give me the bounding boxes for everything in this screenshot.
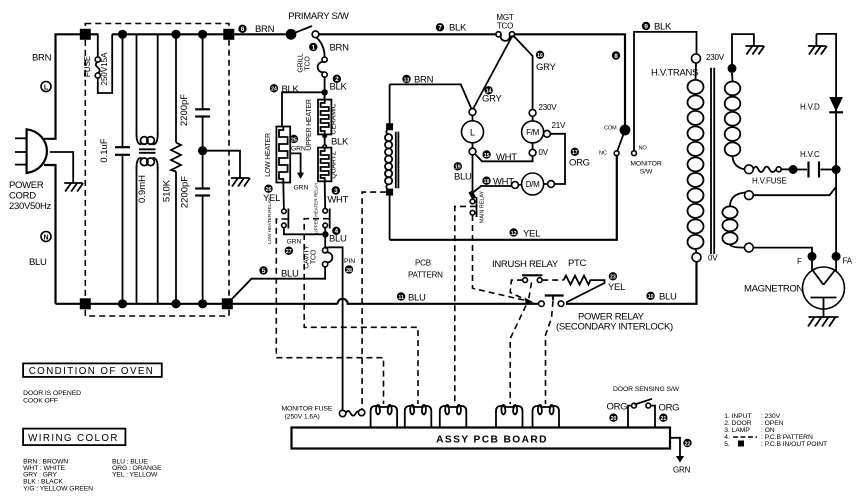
pcb dashed box (noise filter) <box>85 24 229 317</box>
node square pcb point bottom-left <box>80 298 91 309</box>
relay contact low heater relay <box>282 209 289 229</box>
svg-text:: P.C.B PATTERN: : P.C.B PATTERN <box>761 434 813 441</box>
svg-text:25: 25 <box>291 137 297 143</box>
svg-text:0V: 0V <box>539 148 549 157</box>
svg-text:2200pF: 2200pF <box>179 94 190 126</box>
heater upper quartz <box>318 148 331 182</box>
ground hvt right <box>808 34 827 55</box>
node dot hvt secondary top <box>728 64 737 73</box>
svg-text:CONDITION OF OVEN: CONDITION OF OVEN <box>29 366 155 377</box>
node dot bottom 0.1uF <box>118 299 127 308</box>
node dot bottom 2200pF <box>198 299 207 308</box>
svg-text:BLU: BLU <box>659 292 677 303</box>
label 3 WHT <box>332 186 340 194</box>
wire ceramic to quartz BLK <box>324 134 326 147</box>
node dot F <box>808 252 817 261</box>
wire low heater earth tap <box>290 153 300 173</box>
svg-text:1. INPUT: 1. INPUT <box>724 413 751 420</box>
svg-text:7: 7 <box>438 25 442 32</box>
heater upper ceramic <box>318 92 331 134</box>
transformer hvt filament winding <box>722 193 745 248</box>
svg-text:CORD: CORD <box>9 191 36 202</box>
svg-text:DOOR SENSING S/W: DOOR SENSING S/W <box>613 386 680 393</box>
pcb board box <box>292 428 671 449</box>
label 16 GRY <box>536 51 544 59</box>
svg-text:WIRING COLOR: WIRING COLOR <box>28 433 119 444</box>
svg-text:N: N <box>43 234 48 241</box>
node dot mid 2200pF junction <box>198 146 207 155</box>
wire top bus to mgt tco <box>319 33 496 35</box>
svg-text:: P.C.B IN/OUT POINT: : P.C.B IN/OUT POINT <box>761 441 827 448</box>
svg-text:26: 26 <box>266 187 272 193</box>
wire mgt tco to fm 230V (16 GRY) <box>513 35 533 109</box>
svg-text:BRN: BRN <box>330 43 350 54</box>
capacitor 0.1uF <box>115 34 130 304</box>
svg-text:COM: COM <box>604 126 617 132</box>
transformer hvt primary winding <box>688 63 704 253</box>
svg-text:PIN: PIN <box>344 258 355 265</box>
capacitor 2200pF upper <box>195 34 210 188</box>
transformer hvt core <box>711 68 714 254</box>
capacitor 2200pF lower <box>195 189 210 304</box>
thermal cutout cavity tco <box>323 248 333 267</box>
wire 13 BRN lvt to lamp <box>390 84 472 109</box>
svg-text:H.V.C: H.V.C <box>800 150 820 159</box>
dashed pcb pattern main relay to coil3 <box>455 206 476 404</box>
label 1 BRN <box>309 43 317 51</box>
label 8 disc <box>612 51 620 59</box>
diode H.V.D <box>829 97 843 112</box>
wire main relay to dm <box>473 186 512 193</box>
plug prong 1 <box>15 137 27 139</box>
svg-text:UPPER HEATER: UPPER HEATER <box>306 99 313 151</box>
svg-text:(SECONDARY INTERLOCK): (SECONDARY INTERLOCK) <box>556 322 673 333</box>
svg-text:: 230V: : 230V <box>761 413 781 420</box>
wire lvt vertical top <box>389 84 391 128</box>
svg-text:11: 11 <box>398 295 404 301</box>
wire filament top to FA line <box>753 187 836 195</box>
svg-text:GRILL: GRILL <box>298 53 305 73</box>
label 10 BLU <box>646 292 654 300</box>
label 2 BLK <box>333 75 341 83</box>
svg-text:(250V 1.6A): (250V 1.6A) <box>285 414 320 421</box>
svg-text:13: 13 <box>404 77 410 83</box>
ground at power cord <box>64 183 83 192</box>
svg-text:ASSY PCB BOARD: ASSY PCB BOARD <box>436 435 548 446</box>
dashed pcb pattern main relay contact to power relay <box>473 215 527 301</box>
svg-text:: OPEN: : OPEN <box>761 420 784 427</box>
svg-text:DOOR IS OPENED: DOOR IS OPENED <box>23 390 81 397</box>
node dot hvc left <box>789 165 798 174</box>
svg-text:22: 22 <box>685 441 691 447</box>
wire bottom bus with hop <box>338 299 539 304</box>
connector coil 2 <box>405 405 432 428</box>
svg-text:L: L <box>44 84 49 91</box>
node hvt primary top terminal <box>692 54 701 63</box>
switch monitor s/w <box>614 125 636 156</box>
label 18 WHT <box>482 177 490 185</box>
svg-text:S/W: S/W <box>640 169 653 176</box>
svg-text:BLU: BLU <box>29 257 47 268</box>
svg-text:8: 8 <box>614 53 618 60</box>
svg-text:NO: NO <box>639 146 648 152</box>
svg-text:12: 12 <box>511 231 517 237</box>
label 7 BLK <box>436 23 444 31</box>
node square pcb point bottom-right <box>222 298 233 309</box>
wire plug earth to ground <box>50 152 73 183</box>
node N <box>41 232 51 242</box>
connector coil 3 <box>440 405 467 428</box>
SECTION: hv <box>566 34 853 327</box>
dashed pcb pattern power relay area to coil4 <box>510 306 526 405</box>
wire monitor NO up <box>634 32 697 151</box>
svg-text:MONITOR: MONITOR <box>630 161 661 168</box>
svg-text:D/M: D/M <box>526 180 540 189</box>
ground hvt left <box>745 46 764 55</box>
fuse hv fuse <box>745 165 791 174</box>
label 17 ORG <box>571 148 579 156</box>
dashed pcb pattern power relay stem to coil5 <box>546 301 554 404</box>
svg-text:NC: NC <box>599 151 607 157</box>
svg-text:: ON: : ON <box>761 427 775 434</box>
inductor 0.9mH common mode choke <box>136 34 157 304</box>
wire junction to low heater <box>282 92 325 126</box>
svg-text:CERAMIC: CERAMIC <box>331 103 338 134</box>
wire plug line L up to top bus <box>44 34 85 139</box>
SECTION: heaters <box>227 11 496 411</box>
wire low heater to relay <box>282 183 285 210</box>
node ceramic bottom <box>323 134 326 137</box>
svg-text:BLU: BLU <box>454 172 472 183</box>
dashed pcb pattern low relay to coil1 <box>276 219 383 404</box>
wire quartz to relay <box>324 181 327 208</box>
svg-text:POWER: POWER <box>9 180 44 191</box>
wire pin tap from cavity tco <box>325 247 343 410</box>
svg-text:21V: 21V <box>552 121 566 130</box>
node dot hvc right <box>832 165 841 174</box>
heater low heater <box>276 127 290 183</box>
wire fm 21V to dm <box>550 134 565 184</box>
svg-text:17: 17 <box>572 150 578 156</box>
label 11 BLU <box>397 292 405 300</box>
node dot bottom 510K <box>171 299 180 308</box>
svg-text:F/M: F/M <box>526 128 540 137</box>
label 19 BLU main relay wire <box>454 162 462 170</box>
SECTION: emi filter <box>56 24 338 317</box>
svg-text:H.V.TRANS: H.V.TRANS <box>651 68 698 79</box>
dashed pcb pattern lvt to monitor fuse <box>362 192 386 409</box>
wire 12 YEL bus <box>390 156 617 240</box>
top bus wire <box>85 33 98 35</box>
svg-text:BLU: BLU <box>281 269 299 280</box>
svg-text:GRN: GRN <box>294 184 309 191</box>
svg-text:PATTERN: PATTERN <box>408 271 443 280</box>
svg-text:27: 27 <box>286 249 292 255</box>
label 13 BRN <box>402 75 410 83</box>
motor fan F/M <box>522 110 551 157</box>
svg-text:18: 18 <box>484 179 490 185</box>
dashed pcb pattern inrush bar to arrow <box>529 283 532 299</box>
svg-text:GRN: GRN <box>291 145 306 152</box>
svg-text:BLK: BLK <box>282 84 300 95</box>
node dot FA <box>832 252 841 261</box>
node filament bottom terminal <box>745 243 754 252</box>
node quartz top <box>323 145 326 148</box>
svg-text:9: 9 <box>644 23 648 30</box>
svg-text:TCO: TCO <box>305 56 312 71</box>
SECTION: left power input <box>9 34 85 304</box>
svg-text:GRY: GRY <box>536 62 556 73</box>
svg-text:FA: FA <box>843 257 853 266</box>
svg-text:YEL: YEL <box>608 282 625 293</box>
svg-text:4.: 4. <box>724 434 730 441</box>
svg-text:ORG: ORG <box>607 402 628 413</box>
svg-text:23: 23 <box>610 275 616 281</box>
wire lvt bottom to yel bus <box>389 196 391 240</box>
label 21 disc <box>659 414 667 422</box>
svg-text:230V50Hz: 230V50Hz <box>9 201 52 212</box>
switch primary s/w <box>286 26 319 40</box>
node dot top 0.1uF <box>118 30 127 39</box>
arrow pcb pattern into power relay <box>525 298 534 304</box>
svg-text:BLK: BLK <box>654 22 672 33</box>
wire lamp to main relay <box>472 155 474 191</box>
svg-text:BLK: BLK <box>330 82 348 93</box>
label 9 BLK <box>642 22 650 30</box>
label 24 BLK <box>270 84 278 92</box>
svg-text:FUSE: FUSE <box>83 56 92 77</box>
svg-text:COOK OFF: COOK OFF <box>23 398 58 405</box>
label 26 YEL <box>264 185 272 193</box>
box CONDITION OF OVEN <box>23 363 162 377</box>
power cord plug <box>27 129 47 173</box>
svg-text:PTC: PTC <box>568 258 587 269</box>
motor drive D/M <box>512 173 555 195</box>
wire top bus mgt to monitor corner <box>515 34 625 126</box>
node square pcb out point top-right <box>223 29 234 40</box>
node dot heater junction <box>321 89 327 95</box>
svg-text:510K: 510K <box>162 179 173 202</box>
connector coil 5 <box>533 405 560 428</box>
wire primary s/w to grill tco <box>317 38 325 58</box>
svg-text:PCB: PCB <box>415 259 431 268</box>
dashed pcb pattern upper relay to coil2 <box>304 219 418 404</box>
svg-text:16: 16 <box>537 53 543 59</box>
node square lvt bottom <box>386 189 393 196</box>
svg-text:GRN: GRN <box>673 466 691 475</box>
relay contact upper heater relay <box>323 209 330 229</box>
svg-text:20: 20 <box>611 416 617 422</box>
label 25 GRN tap <box>290 135 298 143</box>
svg-text:230V: 230V <box>706 53 725 62</box>
wire low relay to junction <box>284 228 326 235</box>
relay main relay contact <box>470 192 476 218</box>
node square lvt top <box>386 123 393 130</box>
wire 5 BLU cavity tco to bus <box>227 267 325 304</box>
label 15 WHT <box>482 150 490 158</box>
fuse monitor fuse <box>339 409 364 416</box>
svg-text:PRIMARY S/W: PRIMARY S/W <box>288 11 349 22</box>
capacitor H.V.C <box>793 162 836 178</box>
switch door sensing <box>628 399 655 428</box>
label 14 GRY <box>484 86 492 94</box>
node filament top terminal <box>745 191 754 200</box>
wire lamp to fm 0V <box>475 154 533 161</box>
svg-text:WHT: WHT <box>327 195 348 206</box>
label 23 YEL <box>609 272 617 280</box>
ground arrow grn <box>676 456 684 463</box>
magnetron <box>803 260 845 317</box>
label 5 BLU <box>259 266 267 274</box>
dashed pcb pattern inrush left lead <box>510 280 525 300</box>
label 20 disc <box>609 414 617 422</box>
label 6 BRN <box>238 25 246 33</box>
svg-text:MAIN RELAY: MAIN RELAY <box>480 190 486 223</box>
node dot top 2200pF <box>198 30 207 39</box>
svg-text:MAGNETRON: MAGNETRON <box>744 284 803 295</box>
svg-text:YEL: YEL <box>523 229 540 240</box>
svg-text:0.9mH: 0.9mH <box>137 175 148 203</box>
svg-text:UPPER HEATER RELAY: UPPER HEATER RELAY <box>313 182 318 233</box>
relay power relay contacts on bus <box>539 296 564 307</box>
lamp oven lamp L <box>462 109 484 155</box>
box WIRING COLOR <box>23 429 125 446</box>
wire pcb right to ground <box>670 438 680 457</box>
thermal cutout mgt tco <box>496 32 515 41</box>
connector coil 1 <box>371 405 398 428</box>
relay inrush contacts <box>522 275 542 282</box>
svg-text:Y/G : YELLOW GREEN: Y/G : YELLOW GREEN <box>23 485 93 492</box>
svg-text:2200pF: 2200pF <box>180 176 191 208</box>
svg-text:QUARTZ: QUARTZ <box>331 150 338 178</box>
svg-text:F: F <box>797 257 802 266</box>
SECTION: legend <box>23 363 827 492</box>
wire secondary top to ground <box>732 34 754 68</box>
label 27 GRN disc <box>285 247 293 255</box>
SECTION: pcb <box>276 192 691 474</box>
svg-text:ORG: ORG <box>569 158 590 169</box>
label 22 disc <box>683 439 691 447</box>
wire plug neutral down to bottom bus <box>44 165 56 304</box>
svg-text:INRUSH RELAY: INRUSH RELAY <box>492 259 559 270</box>
resistor 510K <box>171 34 181 304</box>
bottom bus wire <box>56 303 338 305</box>
svg-text:YEL : YELLOW: YEL : YELLOW <box>112 472 158 479</box>
svg-text:BRN: BRN <box>32 53 52 64</box>
wire hvt 0V to bus <box>566 262 697 304</box>
dashed pcb pattern inrush right to ptc <box>542 279 563 281</box>
svg-text:TCO: TCO <box>311 249 318 264</box>
wire grill tco to heater junction <box>324 77 326 99</box>
svg-text:6: 6 <box>241 26 245 33</box>
svg-text:10: 10 <box>648 294 654 300</box>
label 4 BLU <box>332 227 340 235</box>
svg-text:BLK: BLK <box>331 137 349 148</box>
node dot relay junction <box>322 231 328 237</box>
svg-text:21: 21 <box>661 416 667 422</box>
svg-text:28: 28 <box>346 268 352 274</box>
svg-text:24: 24 <box>271 87 277 93</box>
plug prong 3 <box>15 164 27 166</box>
svg-text:GRN: GRN <box>287 239 302 246</box>
svg-text:BRN: BRN <box>255 24 275 35</box>
svg-text:H.V.FUSE: H.V.FUSE <box>752 177 787 186</box>
label 12 YEL <box>510 228 518 236</box>
wire mgt tco to lamp (14 GRY) <box>473 36 513 110</box>
svg-text:GRY: GRY <box>482 94 502 105</box>
svg-text:0.1uF: 0.1uF <box>99 138 110 162</box>
ground filter <box>231 178 250 187</box>
svg-text:MONITOR FUSE: MONITOR FUSE <box>282 406 333 413</box>
ground magnetron <box>808 317 839 327</box>
svg-text:3. LAMP: 3. LAMP <box>724 427 750 434</box>
svg-text:2. DOOR: 2. DOOR <box>724 420 751 427</box>
thermal cutout grill tco <box>318 57 328 77</box>
ground arrow low heater <box>297 173 304 179</box>
plug prong 2 <box>15 151 27 153</box>
node square pcb in point top-left <box>80 29 91 40</box>
node hvt 0V terminal <box>692 253 701 262</box>
svg-text:BLK: BLK <box>449 23 467 34</box>
svg-text:LOW HEATER RELAY: LOW HEATER RELAY <box>267 198 272 244</box>
svg-text:230V: 230V <box>539 103 558 112</box>
svg-text:1: 1 <box>311 44 315 51</box>
svg-text:TCO: TCO <box>497 22 513 31</box>
node dot top 510K <box>171 30 180 39</box>
svg-text:L: L <box>470 127 475 137</box>
SECTION: motors <box>385 13 697 240</box>
node L <box>41 82 51 92</box>
svg-text:ORG: ORG <box>659 403 680 414</box>
wire junction to filter ground <box>203 151 240 178</box>
svg-text:5.: 5. <box>724 441 730 448</box>
svg-text:BLU: BLU <box>329 234 347 245</box>
svg-text:0V: 0V <box>708 254 718 263</box>
svg-text:15: 15 <box>484 153 490 159</box>
svg-text:BLU: BLU <box>408 293 426 304</box>
svg-text:5: 5 <box>262 268 266 275</box>
resistor ptc <box>564 276 605 303</box>
svg-text:250V15A: 250V15A <box>100 52 109 86</box>
fuse F1 250V15A <box>85 34 112 93</box>
wire upper relay to cavity tco <box>324 228 326 248</box>
svg-text:LOW HEATER: LOW HEATER <box>265 133 272 177</box>
wire hv right vertical <box>816 34 836 257</box>
svg-text:H.V.D: H.V.D <box>800 103 820 112</box>
transformer lvt primary coil <box>385 128 398 191</box>
connector coil 4 <box>496 405 523 428</box>
wire filament bottom to F <box>753 248 812 252</box>
transformer hvt secondary winding <box>725 73 745 169</box>
label 28 PIN disc <box>345 265 353 273</box>
svg-text:19: 19 <box>455 165 461 171</box>
